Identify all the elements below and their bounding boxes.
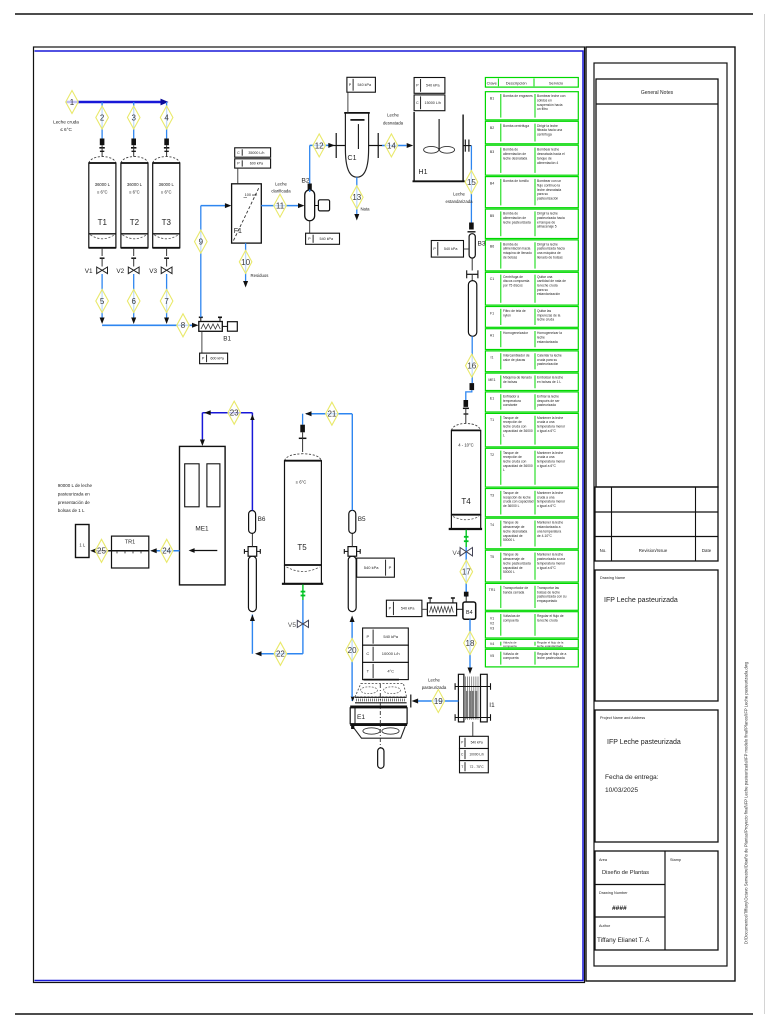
svg-text:≤ 6°C: ≤ 6°C [296,480,307,485]
svg-text:General Notes: General Notes [641,90,674,96]
svg-text:recepción de: recepción de [503,420,522,424]
svg-text:TR1: TR1 [125,540,136,546]
svg-text:Leche: Leche [387,113,399,118]
valve V2 [133,248,135,256]
svg-text:600 kPa: 600 kPa [250,162,263,166]
node 20 flow tag [346,639,359,662]
svg-text:C1: C1 [490,277,495,281]
svg-text:o igual a 6°C: o igual a 6°C [537,429,557,433]
pump B4 screw coil [427,603,456,616]
svg-text:alimentación de: alimentación de [503,152,526,156]
svg-text:IFP Leche pasteurizada: IFP Leche pasteurizada [607,739,681,746]
bag box 1 L [76,525,90,558]
wire drop to tank T2 [133,102,135,139]
svg-text:cruda a una: cruda a una [537,420,555,424]
svg-text:Bomba de tornillo: Bomba de tornillo [503,179,529,183]
svg-text:B4: B4 [466,610,473,616]
svg-text:24: 24 [162,547,171,556]
svg-text:almacenaje 5: almacenaje 5 [537,225,557,229]
svg-text:22: 22 [276,650,285,659]
drawing frame blue inset [35,51,584,981]
wire 21 B5 to tank T5 [351,414,353,510]
svg-text:IFP Leche pasteurizada: IFP Leche pasteurizada [604,597,678,604]
svg-text:540 kPa: 540 kPa [444,247,458,251]
svg-text:Tanque de: Tanque de [503,521,519,525]
svg-text:compuerta: compuerta [503,619,519,623]
pump B5 [349,510,356,533]
title block outer frame [586,47,735,981]
wire 20 E1 to pump B5 [351,697,353,701]
filling machine ME1 [180,446,226,585]
svg-text:9: 9 [199,237,204,246]
tank T1 [89,157,116,164]
svg-text:T3: T3 [162,218,172,227]
svg-text:100 um: 100 um [245,193,258,197]
wire 18 to plate exchanger I1 [469,619,471,668]
svg-text:T: T [461,765,463,769]
svg-text:ME1: ME1 [488,378,495,382]
svg-text:540 kPa: 540 kPa [401,607,415,611]
svg-text:B6: B6 [258,516,266,523]
nozzle plug tank T1 [100,139,105,146]
svg-text:V2: V2 [116,268,124,275]
svg-text:C1: C1 [348,155,357,162]
node 17 flow tag [460,560,473,583]
svg-text:23: 23 [230,409,239,418]
svg-text:la leche cruda: la leche cruda [537,284,558,288]
svg-text:Drawing Number: Drawing Number [599,891,628,895]
label P 540 kPa C1 [347,77,376,92]
wire 23 B6 to filling machine ME1 [251,413,253,511]
svg-text:por 75 discos: por 75 discos [503,284,523,288]
homogenizer coupling [471,258,473,270]
svg-text:Bomba de engranes: Bomba de engranes [503,94,533,98]
svg-text:Area: Area [599,858,608,862]
svg-text:un filtro: un filtro [537,107,548,111]
svg-text:Homogeneizar la: Homogeneizar la [537,331,562,335]
wire raw milk header [66,101,161,103]
svg-text:Quitar las: Quitar las [537,309,551,313]
svg-text:desnatada hacia el: desnatada hacia el [537,152,565,156]
legend row I1 [485,351,578,372]
pump B3 [469,234,475,258]
svg-text:leche desnatada: leche desnatada [503,529,527,533]
svg-text:P: P [389,565,392,570]
svg-text:de bolsas: de bolsas [503,255,517,259]
svg-text:Quitar una: Quitar una [537,275,553,279]
svg-text:2: 2 [100,113,105,122]
svg-text:17: 17 [462,568,471,577]
svg-text:25: 25 [97,547,106,556]
svg-text:Leche: Leche [428,678,440,683]
svg-text:19: 19 [434,697,443,706]
cooler E1 bottom fan [353,726,406,738]
svg-text:≤ 6°C: ≤ 6°C [97,190,108,195]
legend row B5 [485,209,578,238]
centrifuge C1 inlet stub [330,145,345,147]
svg-text:T3: T3 [490,493,494,497]
label boxes E1 [363,628,409,645]
svg-text:Project Name and Address: Project Name and Address [600,716,645,720]
conveyor TR1 [112,536,149,568]
svg-text:T1: T1 [490,418,494,422]
svg-text:flujo continuo la: flujo continuo la [537,183,560,187]
label P 600 kPa F1 [235,159,271,168]
pump B4 [463,602,476,619]
svg-text:Leche: Leche [275,182,287,187]
svg-text:Tanque de: Tanque de [503,553,519,557]
svg-text:de bolsas: de bolsas [503,380,517,384]
svg-text:leche estandarizada: leche estandarizada [537,644,563,648]
drawing frame black [34,47,585,983]
svg-text:o igual a 6°C: o igual a 6°C [537,464,557,468]
svg-text:el tanque de: el tanque de [537,220,555,224]
svg-text:B5: B5 [490,214,494,218]
centrifuge C1 [345,113,368,177]
svg-text:V5: V5 [490,654,494,658]
svg-text:Calentar la leche: Calentar la leche [537,353,562,357]
node 5 flow tag [96,290,109,313]
svg-text:Leche: Leche [453,192,465,197]
pump B6 column [248,556,256,611]
svg-text:≤ 6°C: ≤ 6°C [161,190,172,195]
legend row T2 [485,448,578,487]
title block inner frame [594,63,727,966]
svg-text:leche pasteurizada: leche pasteurizada [537,656,565,660]
svg-text:en bolsas de 1 L: en bolsas de 1 L [537,380,561,384]
svg-text:T1: T1 [98,218,108,227]
svg-text:una temperatura: una temperatura [537,529,561,533]
pump B5 column [348,556,356,611]
svg-text:7: 7 [164,297,169,306]
svg-text:Descripción: Descripción [506,81,527,86]
svg-text:Bomba centrífuga: Bomba centrífuga [503,124,529,128]
svg-text:leche pasteurizada: leche pasteurizada [503,220,531,224]
svg-text:nylon: nylon [503,313,511,317]
svg-text:540 kPa: 540 kPa [383,634,398,639]
node 24 flow tag [160,539,173,562]
wire 16 to tank T4 [471,336,473,383]
svg-text:pasteurizada en: pasteurizada en [58,491,91,496]
svg-text:empaquetado: empaquetado [537,599,557,603]
pump B3 inlet plug [469,223,474,230]
svg-text:B3: B3 [490,150,494,154]
svg-text:ME1: ME1 [195,526,209,533]
svg-text:T2: T2 [130,218,140,227]
pump B2 [305,190,315,221]
svg-text:540 kPa: 540 kPa [357,83,371,87]
svg-text:calor de placas: calor de placas [503,358,526,362]
node 1 flow tag [66,91,79,114]
svg-text:C: C [416,101,419,105]
valve V3 [166,248,168,256]
svg-text:Tanque de: Tanque de [503,491,519,495]
svg-text:sólidos en: sólidos en [537,99,552,103]
wire tank T1 outlet [101,274,103,321]
author stamp box [595,851,718,950]
node 3 flow tag [127,106,140,129]
label C 15000 L/h H1 [414,95,445,111]
svg-text:1 L: 1 L [79,543,85,548]
svg-text:TR1: TR1 [489,588,496,592]
green pipe T5 to V5 [302,585,304,601]
svg-text:36000 L: 36000 L [127,182,143,187]
svg-text:V3: V3 [149,268,157,275]
svg-text:V3: V3 [490,627,494,631]
svg-text:20: 20 [348,646,357,655]
svg-text:15000 L/h: 15000 L/h [425,101,441,105]
legend row V1/V2/V3 [485,612,578,638]
svg-text:3: 3 [131,113,136,122]
valve V5 [302,600,304,654]
legend row C1 [485,272,578,305]
svg-text:pasteurizada hacia: pasteurizada hacia [537,247,565,251]
wire 14 to mixer H1 [382,145,407,147]
svg-text:C: C [366,651,369,656]
label P 540 kPa B2 [309,221,311,233]
svg-text:35000 L/h: 35000 L/h [248,151,264,155]
valve V1 [101,248,103,256]
B5 valve block [348,547,357,557]
legend row B4 [485,177,578,208]
wire 24 ME1 to conveyor TR1 [152,550,180,552]
wire 10 residues [245,243,247,281]
mixer H1 agitator [438,119,440,150]
node 21 flow tag [326,402,339,425]
svg-text:B2: B2 [490,126,494,130]
svg-text:Mantener la leche: Mantener la leche [537,451,563,455]
svg-text:H1: H1 [419,169,428,176]
svg-text:pasteurizada: pasteurizada [537,403,556,407]
svg-text:cruda con capacidad: cruda con capacidad [503,500,534,504]
cooler E1 axis [379,684,381,748]
page bottom rule [15,1013,753,1015]
svg-text:18: 18 [466,639,475,648]
svg-text:capacidad de 36000: capacidad de 36000 [503,429,533,433]
page top rule [15,13,753,15]
svg-text:temperatura menor: temperatura menor [537,500,566,504]
legend row V5 [485,649,578,667]
svg-text:Nata: Nata [360,207,370,212]
node 8 flow tag [177,314,190,337]
svg-text:leche pasteurizada: leche pasteurizada [503,561,531,565]
svg-text:540 kPa: 540 kPa [471,741,483,745]
svg-text:L: L [503,433,505,437]
svg-text:90000 L de leche: 90000 L de leche [58,483,93,488]
svg-text:Transportador de: Transportador de [503,586,528,590]
svg-text:Fecha de entrega:: Fecha de entrega: [605,774,659,781]
svg-text:21: 21 [327,410,336,419]
svg-text:Mantener la leche: Mantener la leche [537,553,563,557]
project name box [595,710,718,842]
nozzle plug tank T3 [164,139,169,146]
svg-text:T2: T2 [490,453,494,457]
general notes box [596,79,718,487]
svg-text:alimentación de: alimentación de [503,216,526,220]
svg-text:B3: B3 [478,241,486,248]
svg-text:Enfriador a: Enfriador a [503,394,519,398]
svg-text:T4: T4 [461,497,471,506]
plate heat exchanger I1 [458,674,464,722]
homogenizer cylinder [468,281,476,337]
tank T3 [153,157,180,164]
svg-text:Stamp: Stamp [670,858,681,862]
svg-text:llenado de bolsas: llenado de bolsas [537,255,563,259]
wire 9 riser to filter [200,206,202,318]
svg-text:E1: E1 [490,397,494,401]
node 12 flow tag [313,134,326,157]
svg-text:Homogeneizador: Homogeneizador [503,331,529,335]
svg-text:V2: V2 [490,622,494,626]
svg-text:4°C: 4°C [387,668,394,673]
node 10 flow tag [239,250,252,273]
legend row T1 [485,413,578,447]
svg-text:14: 14 [387,141,396,150]
wire 19 pasteurized milk to cooler E1 [417,700,458,702]
svg-text:1: 1 [70,98,75,107]
wire 22 to pump B6 column [257,653,303,655]
B6 valve block [248,547,257,557]
cooler E1 drain capsule [378,748,384,768]
svg-text:leche cruda con: leche cruda con [503,460,526,464]
node 23 flow tag [228,401,241,424]
svg-text:I1: I1 [489,702,495,709]
svg-text:B2: B2 [301,178,310,185]
svg-text:o igual a 6°C: o igual a 6°C [537,504,557,508]
tank T4 skirt [450,515,452,529]
svg-text:B1: B1 [490,97,494,101]
svg-text:B1: B1 [223,336,231,343]
label P 540 kPa B3 [431,241,463,258]
drawing name box [595,570,718,701]
svg-text:Servicio: Servicio [549,81,564,86]
svg-text:Tiffany Elianet T. A: Tiffany Elianet T. A [597,937,650,944]
svg-text:72 - 75°C: 72 - 75°C [470,765,485,769]
legend row F1 [485,307,578,328]
svg-text:P: P [367,634,370,639]
svg-text:540 kPa: 540 kPa [426,84,440,88]
node 2 flow tag [96,106,109,129]
svg-text:estandarizada: estandarizada [446,199,474,204]
svg-text:constante: constante [503,403,517,407]
svg-text:F1: F1 [234,228,242,235]
svg-text:temperatura menor: temperatura menor [537,561,566,565]
svg-text:H1: H1 [490,334,495,338]
svg-text:bolsas de 1 L: bolsas de 1 L [58,508,85,513]
label boxes I1 [472,722,474,736]
legend row H1 [485,329,578,350]
svg-text:V1: V1 [85,268,93,275]
svg-text:pasteurización: pasteurización [537,362,558,366]
mixer H1 [413,112,415,181]
svg-text:Author: Author [599,924,611,928]
node 7 flow tag [160,290,173,313]
svg-text:leche cruda: leche cruda [537,318,554,322]
legend row B1 [485,92,578,120]
legend table header [485,78,578,88]
node 22 flow tag [274,642,287,665]
svg-text:10/03/2025: 10/03/2025 [605,787,638,794]
wire drop to tank T1 [101,102,103,139]
svg-text:540 kPa: 540 kPa [364,565,379,570]
svg-text:10000 L/h: 10000 L/h [382,651,400,656]
svg-text:36000 L: 36000 L [159,182,175,187]
cooler E1 [355,683,407,697]
svg-text:600 kPa: 600 kPa [210,357,224,361]
svg-text:compuerta: compuerta [503,656,519,660]
svg-text:pasteurizada: pasteurizada [422,685,447,690]
pump B1 screw pump [199,322,223,332]
svg-text:≤ 6°C: ≤ 6°C [129,190,140,195]
svg-text:5: 5 [100,297,105,306]
wire drop to tank T3 [166,102,168,139]
nozzle plug tank T2 [131,139,136,146]
svg-text:estandarización: estandarización [537,292,560,296]
svg-text:≤ 6°C: ≤ 6°C [60,127,72,132]
ME1 internal arrow [191,550,217,552]
green pipe T4 to V4 [465,530,467,547]
legend row B3 [485,145,578,175]
node 6 flow tag [127,290,140,313]
svg-text:la leche cruda: la leche cruda [537,619,558,623]
node 25 flow tag [95,539,108,562]
legend row V4 [485,639,578,648]
svg-text:centrífuga: centrífuga [537,133,552,137]
legend row T4 [485,518,578,549]
label P 540 kPa B4 [386,600,422,616]
svg-text:V4: V4 [452,550,460,557]
tank T5 [285,454,322,461]
tank T5 skirt [284,565,286,583]
svg-text:estandarizada: estandarizada [537,340,558,344]
wire tank T3 outlet [166,274,168,321]
svg-text:I1: I1 [491,356,494,360]
node 14 flow tag [385,134,398,157]
svg-text:8: 8 [181,321,186,330]
svg-text:B4: B4 [490,181,494,185]
svg-text:10000 L/h: 10000 L/h [469,753,484,757]
pump B6 [249,511,256,534]
svg-text:tanque de: tanque de [537,156,552,160]
svg-text:Filtro de tela de: Filtro de tela de [503,309,526,313]
svg-text:T4: T4 [490,523,494,527]
legend row T5 [485,550,578,582]
svg-text:de 36000 L: de 36000 L [503,504,520,508]
svg-text:leche desnatada: leche desnatada [537,188,561,192]
node 9 flow tag [195,230,208,253]
mixer H1 outlet flanges [463,145,471,147]
svg-text:Tanque de: Tanque de [503,451,519,455]
pump B1 motor [228,322,238,332]
node 18 flow tag [464,632,477,655]
svg-text:banda cerrada: banda cerrada [503,590,524,594]
wire 15 to pump B3 [470,146,472,223]
svg-text:T5: T5 [490,555,494,559]
svg-text:D:\Documentos\Tiffany\Octavo S: D:\Documentos\Tiffany\Octavo Semestre\Di… [744,661,749,944]
label C 35000 L/h F1 [235,148,271,157]
svg-text:clarificada: clarificada [271,189,291,194]
label 540 kPa P B5 [357,558,395,577]
svg-text:Diseño de Plantas: Diseño de Plantas [602,870,649,876]
svg-text:Intercambiador de: Intercambiador de [503,353,530,357]
node 15 flow tag [465,171,478,194]
centrifuge C1 outlet stub [369,145,382,147]
svg-text:540 kPa: 540 kPa [320,237,334,241]
svg-text:Enfriar la leche: Enfriar la leche [537,394,559,398]
svg-text:13: 13 [352,193,361,202]
svg-text:de 4-10°C: de 4-10°C [537,534,553,538]
svg-text:Leche cruda: Leche cruda [53,120,79,125]
